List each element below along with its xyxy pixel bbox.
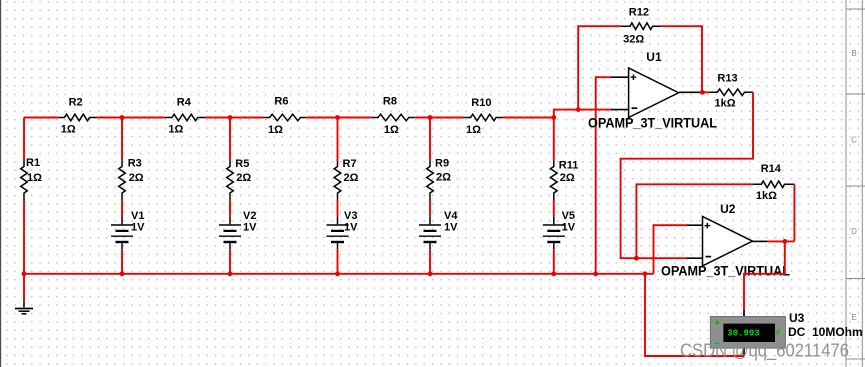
wire bottom ground bus (24, 273, 654, 275)
battery V3 (327, 200, 359, 274)
svg-text:R9: R9 (435, 158, 449, 170)
svg-text:C: C (851, 136, 857, 145)
wire R1 bottom to ground bus (23, 200, 25, 301)
op-amp U1 (611, 50, 700, 118)
resistor R8 (372, 96, 416, 136)
resistor R2 (58, 97, 97, 136)
wire R14 right lead down to U2 output (793, 184, 795, 241)
battery V2 (219, 200, 257, 274)
svg-text:R10: R10 (471, 97, 491, 109)
node junction R12 to inverting input (576, 107, 581, 112)
wire top bus R6 to R8 (307, 117, 372, 119)
svg-text:V2: V2 (243, 210, 256, 222)
svg-text:1V: 1V (562, 222, 576, 234)
svg-text:32Ω: 32Ω (623, 34, 644, 46)
wire top bus R4 to R6 (206, 117, 264, 119)
svg-text:R3: R3 (128, 158, 142, 170)
ground (15, 301, 33, 314)
resistor R4 (165, 97, 206, 136)
wire top bus segment node A to R2 (24, 117, 58, 119)
wire multimeter negative terminal to ground bus (645, 274, 744, 356)
svg-text:2Ω: 2Ω (436, 172, 451, 184)
svg-text:2Ω: 2Ω (560, 172, 575, 184)
multimeter U3 (710, 310, 785, 356)
svg-text:OPAMP_3T_VIRTUAL: OPAMP_3T_VIRTUAL (661, 264, 790, 279)
svg-text:2Ω: 2Ω (129, 172, 144, 184)
svg-text:R12: R12 (629, 7, 649, 19)
svg-text:R7: R7 (343, 158, 357, 170)
svg-text:1kΩ: 1kΩ (715, 98, 736, 110)
svg-text:CSDN @qq_60211476: CSDN @qq_60211476 (680, 340, 849, 362)
node junction U1 output (700, 90, 705, 95)
svg-text:V: V (775, 328, 781, 337)
node junction dots bottom bus (22, 271, 648, 276)
svg-text:R4: R4 (177, 97, 192, 109)
svg-text:R11: R11 (559, 160, 579, 172)
svg-text:1V: 1V (344, 222, 358, 234)
svg-text:1Ω: 1Ω (27, 172, 42, 184)
wire U1 non-inverting input to ground bus (596, 77, 611, 274)
svg-text:1V: 1V (243, 222, 257, 234)
resistor R5 (227, 118, 252, 201)
resistor R6 (263, 96, 307, 136)
wire top bus R2 to R4 (97, 117, 165, 119)
resistor R13 (709, 73, 753, 110)
svg-text:R14: R14 (761, 163, 782, 175)
wire R13 to U2 inverting input (621, 92, 753, 258)
wire U2 output to multimeter positive terminal (744, 241, 785, 310)
svg-text:1Ω: 1Ω (384, 124, 399, 136)
svg-text:V4: V4 (444, 210, 458, 222)
svg-text:R5: R5 (235, 158, 249, 170)
node junction U2 output (782, 239, 787, 244)
wire U2 output (768, 240, 795, 242)
svg-text:1Ω: 1Ω (466, 124, 481, 136)
svg-text:1V: 1V (444, 222, 458, 234)
resistor R7 (334, 118, 358, 201)
svg-text:V1: V1 (131, 210, 144, 222)
resistor R10 (464, 97, 503, 136)
svg-text:R13: R13 (717, 73, 737, 85)
svg-text:OPAMP_3T_VIRTUAL: OPAMP_3T_VIRTUAL (588, 115, 717, 130)
wire top bus R10 to node F (503, 117, 554, 119)
resistor R14 (753, 163, 794, 202)
svg-text:B: B (851, 49, 856, 58)
svg-text:E: E (851, 313, 856, 322)
svg-text:1Ω: 1Ω (61, 124, 76, 136)
svg-text:R6: R6 (274, 96, 288, 108)
svg-text:30.993: 30.993 (727, 329, 759, 339)
battery V1 (111, 200, 145, 274)
wire R14 feedback from U2 inverting input (636, 184, 753, 258)
svg-text:V3: V3 (344, 210, 357, 222)
svg-text:D: D (851, 227, 857, 236)
resistor R3 (119, 118, 144, 201)
svg-text:U3: U3 (789, 311, 805, 325)
resistor R9 (427, 118, 451, 201)
svg-text:1Ω: 1Ω (168, 124, 183, 136)
battery V4 (419, 200, 458, 274)
svg-text:U1: U1 (646, 50, 662, 64)
wire ground bus up to U2 non-inverting input (654, 225, 688, 274)
svg-text:1kΩ: 1kΩ (756, 190, 777, 202)
sheet border right column (846, 0, 865, 367)
svg-text:DC 10MOhm: DC 10MOhm (788, 325, 863, 339)
svg-text:R2: R2 (69, 97, 83, 109)
wire node F jog up to U1 inverting input (554, 110, 611, 118)
op-amp U2 (687, 202, 768, 266)
wire U1 output (700, 91, 709, 93)
node junction R14 to U2 inverting input (634, 256, 639, 261)
resistor R1 (21, 118, 42, 201)
svg-text:U2: U2 (720, 202, 736, 216)
wire top bus R8 to R10 (415, 117, 464, 119)
svg-text:1V: 1V (131, 222, 145, 234)
wire R12 right lead down to U1 output (661, 26, 702, 92)
resistor R12 (621, 7, 661, 46)
resistor R11 (551, 118, 579, 201)
svg-text:R8: R8 (383, 96, 397, 108)
svg-text:2Ω: 2Ω (344, 172, 359, 184)
svg-text:2Ω: 2Ω (236, 172, 251, 184)
svg-text:V5: V5 (562, 210, 575, 222)
node junction dots top bus (120, 115, 557, 120)
sheet border left edge (0, 0, 2, 367)
battery V5 (543, 200, 576, 274)
wire R12 feedback loop (578, 26, 621, 109)
svg-text:R1: R1 (26, 157, 40, 169)
svg-text:1Ω: 1Ω (268, 124, 283, 136)
